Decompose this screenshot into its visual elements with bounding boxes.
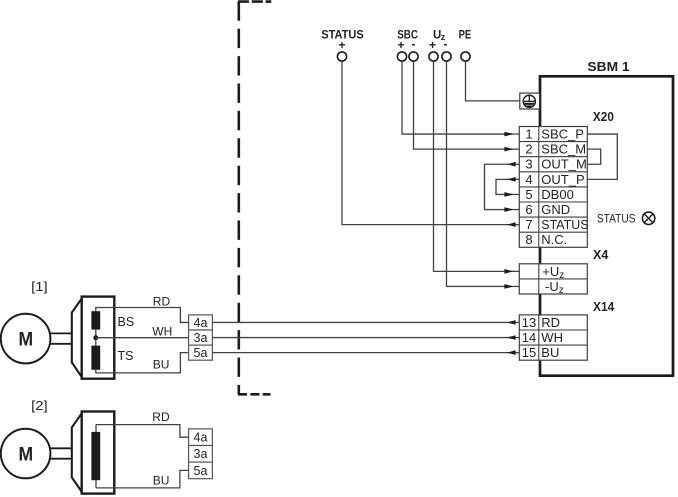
svg-text:WH: WH bbox=[541, 330, 563, 345]
svg-text:STATUS: STATUS bbox=[541, 217, 589, 232]
svg-text:4a: 4a bbox=[194, 431, 208, 445]
svg-text:DB00: DB00 bbox=[541, 187, 574, 202]
svg-text:13: 13 bbox=[522, 315, 536, 330]
svg-text:5a: 5a bbox=[194, 464, 208, 478]
svg-text:BU: BU bbox=[541, 345, 559, 360]
svg-text:[2]: [2] bbox=[31, 398, 48, 413]
svg-text:+: + bbox=[397, 38, 404, 52]
svg-text:14: 14 bbox=[522, 330, 536, 345]
svg-text:1: 1 bbox=[525, 126, 532, 141]
svg-text:-: - bbox=[412, 37, 416, 51]
svg-text:OUT_M: OUT_M bbox=[541, 157, 587, 172]
svg-text:4a: 4a bbox=[194, 316, 208, 330]
svg-text:X4: X4 bbox=[593, 248, 608, 262]
svg-text:+: + bbox=[429, 38, 436, 52]
svg-text:3a: 3a bbox=[194, 331, 208, 345]
svg-text:TS: TS bbox=[118, 349, 134, 363]
svg-text:SBC_M: SBC_M bbox=[541, 142, 586, 157]
svg-text:GND: GND bbox=[541, 202, 570, 217]
svg-text:15: 15 bbox=[522, 345, 536, 360]
svg-text:2: 2 bbox=[525, 142, 532, 157]
svg-text:SBC_P: SBC_P bbox=[541, 126, 584, 141]
svg-text:3a: 3a bbox=[194, 447, 208, 461]
svg-text:BU: BU bbox=[153, 473, 170, 487]
svg-text:BU: BU bbox=[153, 358, 170, 372]
svg-text:RD: RD bbox=[541, 315, 560, 330]
svg-text:X14: X14 bbox=[593, 300, 614, 314]
svg-text:M: M bbox=[19, 329, 34, 351]
svg-text:[1]: [1] bbox=[31, 279, 48, 294]
svg-text:BS: BS bbox=[118, 315, 135, 329]
svg-text:7: 7 bbox=[525, 217, 532, 232]
svg-text:8: 8 bbox=[525, 232, 532, 247]
svg-text:STATUS: STATUS bbox=[597, 211, 636, 225]
svg-text:5: 5 bbox=[525, 187, 532, 202]
svg-text:N.C.: N.C. bbox=[541, 232, 567, 247]
svg-text:RD: RD bbox=[153, 295, 171, 309]
svg-text:RD: RD bbox=[152, 410, 170, 424]
svg-text:3: 3 bbox=[525, 157, 532, 172]
svg-text:+: + bbox=[338, 38, 345, 52]
svg-text:WH: WH bbox=[152, 324, 172, 338]
svg-text:4: 4 bbox=[525, 172, 532, 187]
svg-text:-: - bbox=[444, 37, 448, 51]
svg-text:6: 6 bbox=[525, 202, 532, 217]
svg-text:5a: 5a bbox=[194, 346, 208, 360]
svg-text:OUT_P: OUT_P bbox=[541, 172, 584, 187]
svg-text:X20: X20 bbox=[593, 110, 614, 124]
svg-text:M: M bbox=[19, 443, 34, 465]
svg-text:SBM 1: SBM 1 bbox=[587, 59, 629, 74]
svg-text:PE: PE bbox=[459, 29, 472, 41]
